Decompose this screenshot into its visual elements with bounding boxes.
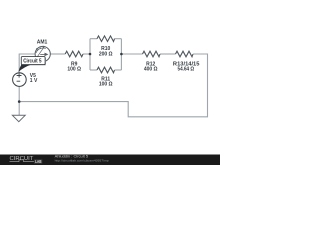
- wire top branch right lead: [115, 38, 122, 40]
- resistor R13/14/15: [176, 51, 194, 57]
- svg-text:LAB: LAB: [35, 159, 41, 164]
- svg-text:400 Ω: 400 Ω: [144, 66, 158, 72]
- svg-text:200 Ω: 200 Ω: [99, 51, 113, 57]
- wire R9 to node A: [83, 53, 90, 55]
- svg-text:1 V: 1 V: [30, 78, 38, 84]
- wire ammeter to R9: [50, 53, 65, 55]
- wire node B to R12: [121, 53, 142, 55]
- wire V5 bottom to junction: [18, 86, 20, 101]
- wire R12 to R13/14/15: [160, 53, 176, 55]
- resistor R12: [143, 51, 161, 57]
- ground: [12, 115, 25, 121]
- wire top branch left lead: [90, 38, 97, 40]
- label V5 value: [30, 73, 38, 84]
- wire junction to ground: [18, 102, 20, 116]
- footer bar: [0, 155, 220, 166]
- svg-text:http://circuitlab.com/c/juam43: http://circuitlab.com/c/juam43957/mp: [55, 158, 109, 162]
- wire parallel left vertical: [89, 39, 91, 70]
- svg-text:CIRCUIT: CIRCUIT: [10, 156, 34, 162]
- voltage source V5: [13, 73, 27, 87]
- node B junction dot: [120, 53, 123, 56]
- svg-text:100 Ω: 100 Ω: [99, 82, 113, 88]
- ammeter AM1: [35, 46, 50, 62]
- node ground junction dot: [18, 100, 21, 103]
- wire right loop return: [19, 54, 207, 117]
- resistor R11: [97, 67, 115, 73]
- node A junction dot: [89, 53, 92, 56]
- svg-text:100 Ω: 100 Ω: [67, 66, 81, 72]
- svg-text:54.64 Ω: 54.64 Ω: [178, 66, 195, 72]
- label R9 value: [67, 46, 199, 87]
- footer logo waveform: [10, 160, 35, 162]
- svg-text:Circuit 5: Circuit 5: [23, 59, 41, 65]
- wire bottom branch right lead: [115, 69, 122, 71]
- annotation Circuit 5 flag: [18, 57, 46, 72]
- resistor R10: [97, 36, 115, 42]
- wire V5 top to ammeter: [19, 54, 35, 73]
- wire bottom branch left lead: [90, 69, 97, 71]
- wire parallel right vertical: [120, 39, 122, 70]
- footer logo LAB: [34, 159, 42, 164]
- svg-text:AM1: AM1: [37, 39, 48, 45]
- resistor R9: [65, 51, 83, 57]
